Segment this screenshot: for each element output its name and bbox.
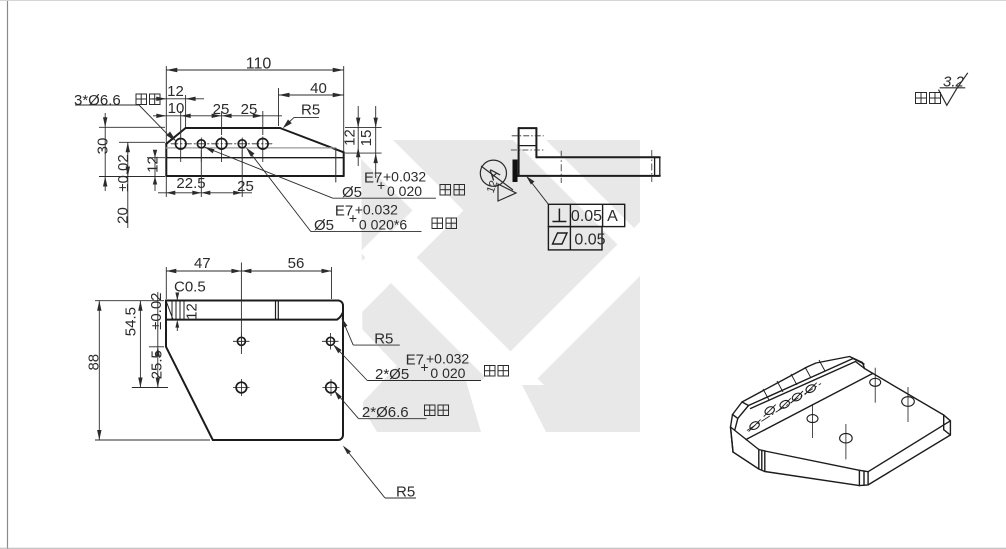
svg-text:20: 20 (114, 207, 131, 224)
label 3*Ø6.6 贯穿 with leader (74, 92, 177, 142)
bottom ext for 22.5/25 (165, 177, 167, 197)
silhouette (731, 357, 951, 486)
white wedge at left edge (361, 328, 397, 404)
svg-text:25: 25 (241, 101, 258, 118)
R5 label plan top-right (342, 318, 400, 348)
svg-text:+: + (377, 177, 385, 193)
dim 56 (241, 270, 331, 272)
svg-text:22.5: 22.5 (176, 175, 205, 192)
mid horizontal line (166, 157, 343, 159)
dim 10 / 25 25 (153, 115, 282, 117)
dim 88 (98, 301, 100, 440)
svg-text:±0.02: ±0.02 (115, 154, 132, 191)
dim 30 left (arrows outside) (104, 113, 106, 191)
svg-text:C0.5: C0.5 (174, 279, 206, 296)
right corner cut (943, 415, 945, 430)
R5 label plan bottom (343, 446, 416, 501)
chamfer marks at left of rib band (167, 302, 174, 320)
GD&T frames (526, 176, 625, 250)
svg-text:2*Ø5: 2*Ø5 (375, 366, 409, 383)
left corner verticals (731, 427, 734, 452)
svg-text:12: 12 (341, 129, 358, 146)
svg-text:0 020*6: 0 020*6 (359, 217, 407, 233)
hole 4 (Ø5) (238, 140, 246, 148)
dim 20 +-0.02 left (127, 142, 129, 228)
其余 at (915..941, 92..104) (916, 93, 941, 104)
svg-text:25.5: 25.5 (148, 350, 165, 379)
holes of front view (175, 137, 268, 163)
svg-text:56: 56 (288, 255, 305, 272)
svg-text:12: 12 (167, 83, 184, 100)
rib end inner edge (853, 359, 864, 365)
svg-text:15: 15 (358, 130, 375, 147)
hole 1 (Ø6.6) (175, 139, 186, 150)
dim 12 top (arrows outside) (152, 98, 204, 100)
svg-text:110: 110 (246, 56, 272, 73)
贯穿 after 2*Ø6.6 at (424..454,404..416) (425, 405, 449, 416)
extension lines front view (99, 66, 382, 197)
rib rectangle (519, 127, 537, 129)
perpendicularity symbol (558, 209, 560, 222)
svg-text:40: 40 (310, 80, 327, 97)
svg-text:54.5: 54.5 (122, 307, 139, 336)
svg-text:A: A (607, 208, 618, 225)
svg-text:12: 12 (183, 303, 200, 320)
left edge (165, 144, 167, 176)
贯穿 after 2*Ø5 at (484..513,365..376) (485, 366, 509, 377)
top face edges (731, 427, 759, 450)
svg-text:2*Ø6.6: 2*Ø6.6 (362, 404, 409, 421)
left chamfer (166, 128, 185, 144)
svg-text:3*Ø6.6: 3*Ø6.6 (74, 92, 121, 109)
hole 3 (Ø6.6) (216, 139, 227, 150)
bottom edge (166, 175, 343, 177)
white channel Z3a (right slash band down to valley) (481, 222, 640, 381)
svg-text:Ø5: Ø5 (342, 184, 362, 201)
bottom corner verticals (858, 470, 860, 485)
svg-text:0.05: 0.05 (574, 232, 605, 249)
plan view ext + dims (95, 263, 332, 441)
rib front top edges (749, 359, 854, 406)
iso plate holes (807, 368, 914, 460)
white V left arm (360, 227, 544, 386)
label Ø5 E7 +0.032/+0.020*6 贯穿 (lower) (246, 148, 422, 235)
hole 2 (Ø5) (197, 140, 205, 148)
svg-text:88: 88 (85, 354, 102, 371)
horizontal ext left (99, 126, 165, 128)
plan view holes (233, 333, 340, 396)
svg-text:30: 30 (94, 138, 111, 155)
watermark (342, 140, 640, 432)
dimension texts front view (94, 56, 375, 224)
贯穿 after 3*Ø6.6 at (135..160, 93..105) (136, 94, 160, 105)
flatness symbol (parallelogram) (553, 233, 568, 244)
贯穿 after Ø5 label 2 at (432..457,218..228) (432, 218, 457, 229)
rib base edge (746, 373, 873, 439)
svg-text:12: 12 (144, 156, 161, 173)
svg-text:47: 47 (194, 255, 211, 272)
C0.5 leader arrows (176, 293, 178, 300)
dim 12 right (vertical, arrows outside) (357, 106, 359, 166)
svg-text:+: + (420, 359, 428, 375)
dim 22.5 bottom (158, 192, 252, 194)
CJK glyph boxes (贯穿 / 其余) drawn as stroke glyphs (136, 93, 941, 416)
svg-text:0 020: 0 020 (387, 183, 422, 199)
right diagonal (280, 128, 344, 152)
dim 25.5 (157, 292, 159, 388)
svg-text:Ø5: Ø5 (314, 217, 334, 234)
贯穿 after Ø5 label 1 at (440..470,184..194) (440, 185, 465, 196)
datum A symbol (480, 160, 517, 202)
left chamfer inner edge (735, 406, 749, 431)
label 2*Ø6.6 贯穿 (334, 390, 426, 421)
svg-text:0 020: 0 020 (430, 365, 465, 381)
thin vertical near right end (335, 149, 337, 183)
ticks across rib top (763, 389, 769, 400)
svg-text:+0.032: +0.032 (355, 202, 398, 218)
svg-text:±0.02: ±0.02 (148, 292, 165, 329)
svg-text:0.05: 0.05 (571, 208, 602, 225)
svg-text:R5: R5 (301, 102, 320, 119)
svg-text:25: 25 (237, 178, 254, 195)
sheet border line (7, 0, 9, 549)
dim 15 right (375, 106, 377, 178)
white zigzag channel Z1 (top-left) (342, 140, 464, 313)
white channel Z2 (top-right backslash band) (513, 140, 640, 267)
dim 12 left small (arrows outside) (154, 150, 156, 191)
dim 40 (279, 94, 344, 96)
hole centerline dash-dot (171, 143, 272, 145)
diag corner verticals (758, 450, 760, 470)
horizontal ext right (345, 127, 382, 129)
plate (536, 156, 659, 158)
dim 47 (166, 270, 241, 272)
dim 110 (166, 69, 343, 71)
svg-text:10: 10 (168, 100, 185, 117)
right edge (343, 152, 345, 176)
gray step line (166, 147, 335, 149)
svg-text:25: 25 (213, 101, 230, 118)
label 2*Ø5 E7 (333, 344, 481, 383)
dim 25 bottom (201, 191, 210, 195)
top edge (186, 127, 280, 129)
label Ø5 E7 +0.032/+0.020 贯穿 (upper) (205, 147, 437, 201)
svg-text:+: + (349, 210, 357, 226)
hole 5 (Ø6.6) (258, 139, 269, 150)
dim 54.5 (139, 301, 141, 388)
svg-text:3.2: 3.2 (943, 74, 965, 91)
dimension lines + arrows front view (103, 68, 378, 228)
R5 label top (283, 102, 320, 129)
iso rib holes (747, 360, 825, 432)
white channel Z3b (valley to bottom) (466, 381, 546, 432)
